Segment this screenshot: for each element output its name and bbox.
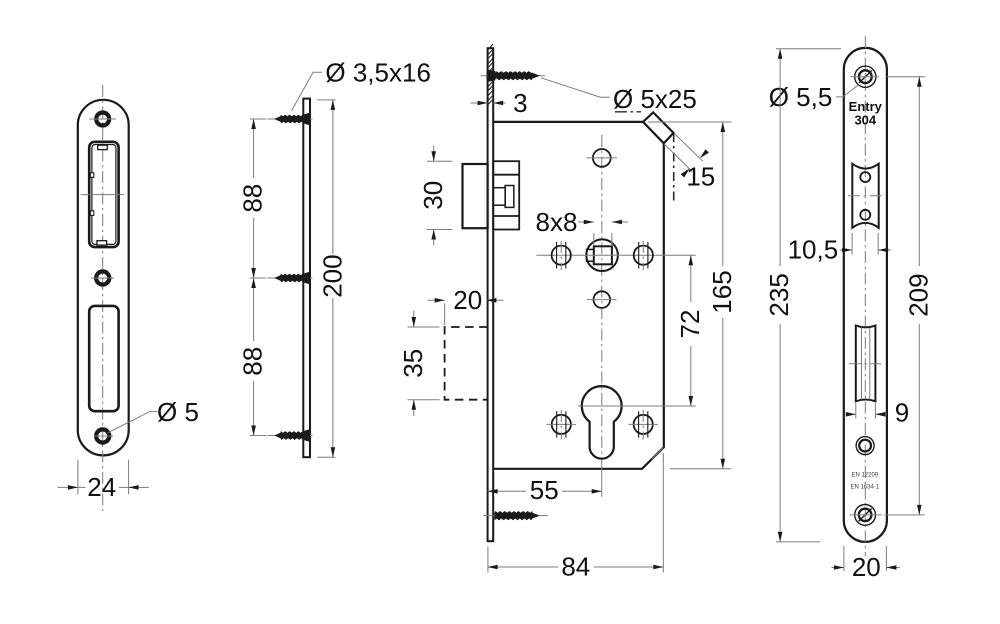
euro cylinder hole	[582, 386, 622, 459]
cylinder fixing screw hole	[856, 437, 874, 455]
svg-text:EN 12209: EN 12209	[851, 473, 878, 479]
dimension 72	[675, 255, 705, 406]
latch opening crosshair	[848, 195, 883, 197]
bottom corner inner line	[652, 448, 664, 460]
strike plate top hole	[90, 113, 117, 126]
deadbolt opening crosshair	[849, 363, 881, 365]
label diameter 5 leader	[108, 412, 158, 433]
deadbolt thrown dashed	[445, 327, 488, 400]
strike plate middle hole	[91, 271, 114, 284]
strike plate bottom hole	[94, 429, 113, 442]
dimension 88 lower	[237, 278, 267, 436]
body vertical centerline	[601, 135, 603, 462]
screw 1 side view	[268, 113, 313, 126]
svg-text:209: 209	[904, 273, 934, 316]
svg-text:Ø 5: Ø 5	[157, 397, 199, 427]
faceplate bottom screw hole	[850, 505, 882, 526]
spindle crosshair / 72 top extension	[536, 254, 696, 256]
dimension 165	[648, 122, 737, 469]
dimension 30	[418, 146, 453, 246]
svg-text:Ø 5,5: Ø 5,5	[769, 82, 833, 112]
svg-text:15: 15	[686, 162, 715, 192]
strike plate centerline	[102, 85, 104, 511]
dimension 55	[488, 462, 602, 506]
dimension 209	[884, 77, 933, 515]
svg-text:20: 20	[852, 552, 881, 582]
tab centerline horizontal	[615, 111, 641, 113]
right spindle side hole	[634, 241, 653, 270]
top pin hole	[587, 149, 618, 167]
lock faceplate edge view	[488, 48, 494, 541]
latch bolt protruding	[463, 164, 488, 228]
hole below spindle	[587, 291, 617, 308]
svg-text:84: 84	[561, 552, 590, 582]
spindle follower 8x8	[586, 239, 618, 271]
svg-text:235: 235	[764, 273, 794, 316]
lock body outline	[493, 112, 673, 468]
strike plate upper opening	[81, 142, 124, 247]
svg-text:88: 88	[237, 184, 267, 213]
dimension 9	[846, 398, 909, 428]
bottom screw	[483, 511, 548, 520]
dimension 20 faceplate	[831, 546, 899, 582]
svg-text:72: 72	[675, 310, 705, 339]
top screw	[481, 69, 546, 82]
label diameter 5x25 leader	[541, 78, 610, 97]
left cylinder side hole	[547, 410, 577, 440]
svg-text:200: 200	[317, 254, 347, 297]
side plate outline	[303, 99, 310, 458]
latch bolt inside body	[493, 161, 519, 229]
faceplate top screw hole	[850, 66, 879, 87]
svg-text:9: 9	[895, 398, 909, 428]
latch opening screw holes	[860, 172, 870, 182]
dimension 88 upper	[237, 119, 267, 278]
dimension 35	[398, 311, 439, 417]
screw 2 side view	[268, 272, 313, 285]
svg-text:3: 3	[513, 88, 527, 118]
svg-text:55: 55	[530, 475, 559, 505]
faceplate hatching	[488, 44, 494, 105]
label 8x8	[536, 207, 628, 246]
dimension 15	[664, 134, 715, 192]
right cylinder side hole	[629, 410, 659, 440]
screw 3 side view	[268, 429, 313, 442]
deadbolt opening	[856, 326, 876, 402]
faceplate front outline	[844, 48, 887, 542]
dimension 235	[764, 49, 841, 542]
latch strike opening	[852, 164, 878, 228]
faceplate centerline	[864, 36, 866, 556]
label diameter 5,5 leader	[836, 85, 859, 97]
corner tab fold line	[643, 122, 664, 143]
hidden tab edge dash-dot	[673, 133, 675, 202]
svg-text:EN 1634-1: EN 1634-1	[850, 485, 879, 491]
svg-text:30: 30	[418, 181, 448, 210]
svg-text:165: 165	[707, 270, 737, 313]
dimension 84	[488, 453, 664, 582]
svg-text:88: 88	[237, 347, 267, 376]
svg-text:10,5: 10,5	[788, 235, 839, 265]
svg-text:8x8: 8x8	[536, 207, 578, 237]
svg-text:24: 24	[87, 472, 116, 502]
dimension 20 deadbolt throw	[427, 285, 503, 325]
dimension 200	[317, 100, 348, 457]
dimension 10,5	[788, 233, 892, 265]
dimension 24	[58, 460, 149, 502]
strike plate lower opening	[89, 306, 118, 411]
dimension 3	[471, 88, 528, 118]
cylinder crosshair / 72 bottom extension	[578, 405, 696, 407]
svg-text:Ø 5x25: Ø 5x25	[613, 84, 697, 114]
left spindle side hole	[552, 241, 571, 270]
svg-text:20: 20	[453, 285, 482, 315]
label diameter 3,5x16 leader	[292, 72, 323, 111]
svg-text:304: 304	[854, 113, 876, 128]
svg-text:35: 35	[398, 349, 428, 378]
svg-text:Ø 3,5x16: Ø 3,5x16	[325, 58, 431, 88]
strike plate outline	[78, 100, 129, 456]
